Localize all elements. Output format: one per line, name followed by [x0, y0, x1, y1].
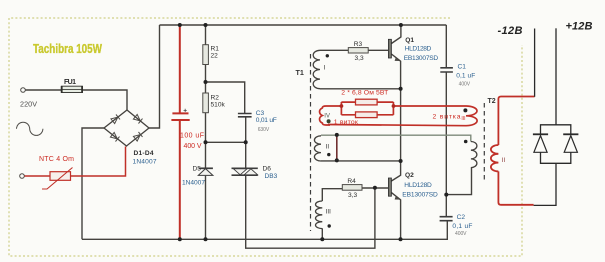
output diode left: [533, 133, 548, 135]
T2 secondary winding II (red): [491, 97, 535, 205]
transistor Q1: [388, 39, 391, 58]
wire: diode frame bottom and tail: [541, 152, 571, 163]
T1 winding III: [315, 201, 322, 229]
wire: red loop top line right of resistors: [393, 105, 466, 107]
wire: bridge right corner to top-rail riser: [149, 25, 160, 128]
resistor R1: [203, 45, 209, 65]
wire: -12V rail: [534, 29, 536, 97]
svg-text:0,01 uF: 0,01 uF: [256, 117, 277, 124]
transistor Q2: [388, 178, 391, 196]
output diode right: [563, 133, 578, 135]
node: R2-D5: [204, 140, 208, 144]
node: cap100 top rail: [178, 23, 182, 27]
capacitor 100uF 400V (red electrolytic): [171, 25, 189, 239]
svg-text:R1: R1: [211, 46, 220, 53]
svg-text:III: III: [461, 116, 465, 122]
svg-text:1N4007: 1N4007: [133, 159, 157, 166]
svg-text:22: 22: [211, 53, 219, 60]
T2 primary winding I (black): [471, 142, 477, 168]
svg-text:II: II: [326, 143, 330, 150]
wire: node line D5-D6: [206, 141, 246, 143]
svg-text:HLD128D: HLD128D: [404, 182, 432, 189]
transformer T2 core (dashed): [483, 103, 485, 180]
svg-text:Q2: Q2: [405, 172, 414, 179]
wire: R1 column and node to C3: [206, 25, 245, 113]
svg-text:630V: 630V: [258, 127, 270, 133]
svg-text:0,1 uF: 0,1 uF: [456, 73, 475, 80]
wire: Q2 emitter down to bottom rail: [391, 193, 400, 240]
wire: bottom rail: [82, 221, 447, 240]
node: C3-D6: [244, 140, 248, 144]
svg-text:1 виток: 1 виток: [334, 119, 358, 126]
svg-text:EB13007SD: EB13007SD: [404, 55, 439, 62]
capacitor C2: [440, 217, 453, 221]
fuse FU1: [61, 86, 82, 92]
wire: red loop bottom line: [328, 125, 466, 126]
wire: T1 winding I top to R3 to Q1 base: [320, 49, 388, 51]
T1 winding II: [314, 136, 321, 161]
diode D3 (left-bottom edge): [110, 132, 119, 141]
terminal lower: [20, 174, 25, 179]
resistor R2: [203, 93, 209, 113]
svg-text:100 uF: 100 uF: [180, 133, 204, 140]
wire: T1 winding III bottom to rail: [321, 228, 323, 239]
bridge D1-D4 diamond: [104, 110, 149, 146]
svg-text:400V: 400V: [455, 231, 467, 237]
wire: bridge left corner down-left to bottom rail: [82, 128, 104, 239]
node: winding IV phase dot: [327, 119, 331, 123]
wire: +12V rail down to diode frame: [555, 28, 557, 125]
svg-text:510k: 510k: [211, 102, 226, 109]
diode D5: [199, 167, 213, 169]
svg-text:1N4007: 1N4007: [182, 180, 205, 187]
resistor 6.8 Ohm lower: [356, 112, 378, 118]
svg-text:3,3: 3,3: [348, 192, 357, 199]
T2 winding III (2 turns, red): [466, 106, 477, 126]
wire: T2 primary bottom to divider midpoint: [446, 168, 471, 195]
svg-text:C1: C1: [458, 64, 467, 71]
svg-text:NTC 4 Om: NTC 4 Om: [39, 156, 74, 163]
svg-text:R4: R4: [347, 178, 356, 185]
wire: terminal1 to fuse to bridge top: [26, 90, 128, 110]
diode D4 (bottom-right edge): [133, 132, 142, 141]
node: T2 primary phase dot: [464, 140, 468, 144]
wire: T1 winding II bottom line to Q2 collector: [321, 160, 401, 162]
svg-text:D1-D4: D1-D4: [134, 150, 154, 157]
svg-text:IV: IV: [324, 114, 330, 120]
wire: T1 winding I bottom to Q1 emitter node: [320, 88, 401, 90]
svg-text:+12В: +12В: [566, 21, 593, 33]
capacitor C3: [238, 114, 252, 117]
terminal upper: [21, 88, 26, 93]
node: winding I bottom / Q1 emitter: [399, 87, 403, 91]
wire: diode frame top: [541, 125, 571, 134]
AC sine symbol: [17, 122, 43, 135]
node: resistor network left junction: [340, 104, 344, 108]
svg-text:DB3: DB3: [265, 173, 278, 180]
wire: winding II shorting link (mod, dark red): [336, 135, 338, 161]
svg-text:T1: T1: [296, 68, 304, 77]
svg-text:+: +: [183, 108, 187, 115]
node: winding I phase dot: [326, 54, 329, 57]
wire: C3 bottom to D6, D6 down to diac trigger line to Q2 base: [246, 118, 375, 249]
node: Q2 collector: [399, 159, 403, 163]
node: R1-R2-C3: [204, 80, 208, 84]
diode D2 (top-right edge): [133, 114, 142, 123]
wire: T1 winding II top line to T2 primary top (gray-green): [321, 135, 471, 141]
svg-text:D5: D5: [193, 166, 202, 173]
resistor R4: [342, 185, 362, 191]
svg-text:HLD128D: HLD128D: [405, 45, 432, 52]
node: winding II phase dot: [327, 153, 330, 156]
resistor 6.8 Ohm upper: [356, 99, 378, 105]
svg-text:0,1 uF: 0,1 uF: [452, 223, 472, 230]
wire: top rail: [160, 24, 447, 26]
node: winding III phase dot: [328, 224, 331, 227]
node: Q1 collector top rail: [399, 23, 403, 27]
svg-text:2 витка: 2 витка: [433, 114, 461, 121]
diode D1 (left-top edge): [111, 114, 120, 123]
node: rail dots: [178, 237, 182, 241]
svg-text:C2: C2: [457, 214, 466, 221]
node: R4 - Q2 base - diac: [373, 186, 377, 190]
svg-text:-12В: -12В: [498, 25, 523, 37]
svg-text:2 * 6,8 Ом 5ВТ: 2 * 6,8 Ом 5ВТ: [341, 90, 388, 97]
transformer T1 core (dashed): [310, 54, 312, 231]
svg-text:I: I: [324, 65, 326, 72]
svg-text:D6: D6: [263, 166, 272, 173]
diac D6: [232, 168, 258, 175]
node: R1 top rail: [204, 23, 208, 27]
svg-text:R2: R2: [211, 95, 220, 102]
wire: Q1 collector to top rail: [391, 25, 401, 44]
dashed schematic border: [9, 18, 522, 256]
resistor network connectors: [341, 102, 393, 115]
svg-text:R3: R3: [354, 41, 363, 48]
NTC thermistor (red) wire and body: [25, 147, 126, 177]
T1 winding IV (1 turn, red): [320, 106, 342, 125]
svg-text:3,3: 3,3: [355, 55, 364, 62]
node: winding II short top: [335, 133, 339, 137]
svg-text:EB13007SD: EB13007SD: [402, 191, 438, 198]
wire: T1 winding III top to R4 to Q2 base: [322, 188, 388, 201]
resistor R3: [348, 48, 368, 53]
node: resistor network right junction: [392, 104, 396, 108]
wire: R2 bottom to D5 to bottom rail: [205, 113, 207, 240]
svg-text:Q1: Q1: [405, 37, 414, 44]
svg-text:T2: T2: [488, 98, 496, 105]
node: T2 primary bottom / divider midpoint: [444, 193, 448, 197]
wire: C1 riser / divider column C1-C2: [445, 25, 447, 216]
svg-text:220V: 220V: [20, 100, 37, 109]
svg-text:Tachibra 105W: Tachibra 105W: [33, 41, 103, 56]
node: T2 winding III phase dot: [463, 108, 467, 112]
T1 winding I: [313, 50, 320, 88]
svg-text:FU1: FU1: [64, 79, 76, 86]
svg-text:II: II: [502, 157, 506, 164]
capacitor C1: [440, 68, 453, 72]
wire: Q1 emitter and midpoint vertical down to Q2 collector: [391, 54, 401, 182]
svg-text:400V: 400V: [459, 82, 471, 88]
svg-text:400 V: 400 V: [184, 143, 202, 150]
svg-text:III: III: [326, 209, 331, 216]
node: winding II short bottom: [335, 158, 339, 162]
